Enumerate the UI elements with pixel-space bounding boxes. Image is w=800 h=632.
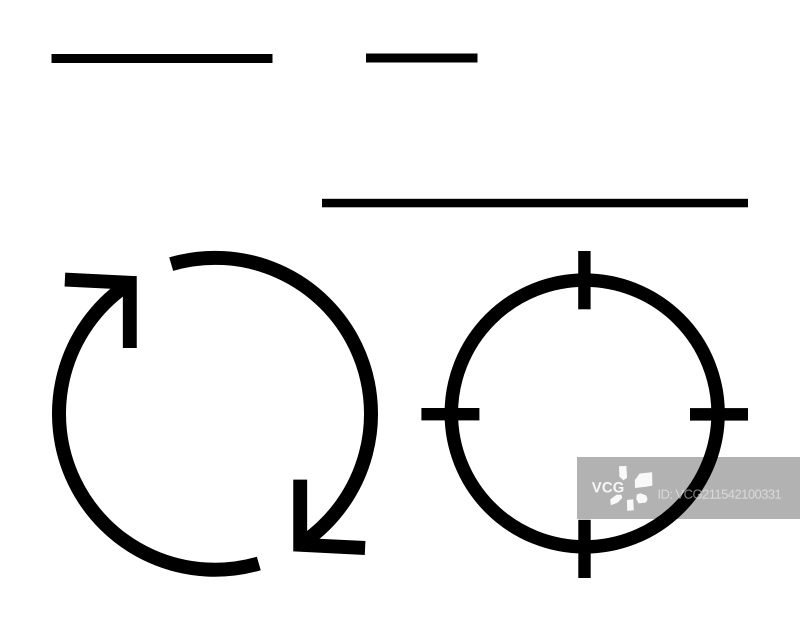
rotate icon: arrowhead 2 (bottom-right, pointing down-left) [300,480,365,548]
crosshair tick top [578,251,590,309]
watermark ID text [657,487,781,502]
long rule line [322,199,748,208]
crosshair circle [451,280,718,547]
title bar line 2 [366,54,478,63]
svg-text:VCG: VCG [592,480,625,496]
crosshair tick right [690,408,748,421]
rotate icon: arrowhead 1 (top-left, pointing up-right) [65,280,130,348]
rotate icon: arc A (top-right) [171,258,371,542]
crosshair tick bottom [578,520,590,578]
watermark flower logo petals [610,466,652,511]
svg-text:ID: VCG211542100331: ID: VCG211542100331 [657,487,781,502]
watermark VCG wordmark [592,480,625,496]
crosshair tick left [421,408,479,420]
rotate icon: arc B (bottom-left) [59,286,259,570]
watermark bar [577,457,800,519]
title bar line 1 [52,54,273,63]
